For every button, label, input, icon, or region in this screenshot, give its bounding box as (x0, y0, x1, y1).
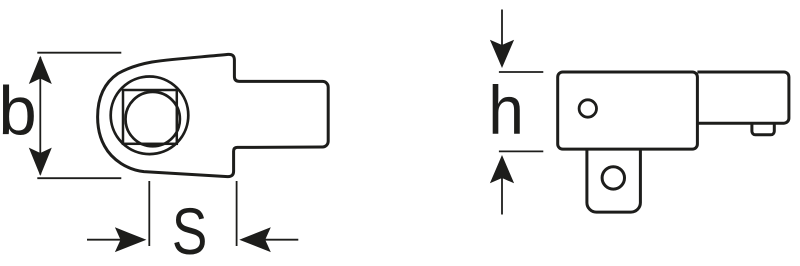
dimension h top arrowhead (490, 40, 514, 68)
head outline (98, 54, 329, 176)
outer circle of square drive (111, 77, 189, 155)
hole in body (579, 100, 596, 117)
dimension b arrowhead up (29, 56, 52, 84)
dimension b arrow line (39, 57, 41, 175)
dimension S left arrowhead (115, 227, 146, 252)
dimension b top extension line (37, 52, 121, 54)
label S (172, 194, 207, 266)
tang outline right view (697, 72, 789, 123)
body outline right view (558, 72, 698, 149)
dimension S right arrowhead (239, 227, 270, 252)
detent bump on tang (752, 123, 774, 135)
dimension S left extension line (148, 181, 150, 246)
svg-text:b: b (0, 73, 37, 150)
dimension b bottom extension line (37, 177, 121, 179)
hole in lower tab (602, 167, 624, 189)
dimension S right extension line (236, 181, 238, 246)
lower tab (587, 149, 641, 212)
dimension h top arrow line (501, 10, 503, 46)
dimension h bottom arrowhead (490, 155, 514, 183)
dimension h top extension line (499, 71, 543, 73)
dimension S right arrow line (265, 239, 298, 241)
dimension b arrowhead down (29, 148, 52, 176)
svg-text:S: S (172, 194, 207, 266)
dimension S left arrow line (87, 239, 121, 241)
dimension h bottom extension line (499, 150, 543, 152)
square drive (123, 90, 177, 144)
label h (488, 73, 524, 150)
dimension h bottom arrow line (501, 178, 503, 215)
inner circle of square drive (126, 92, 180, 146)
svg-text:h: h (488, 73, 524, 150)
